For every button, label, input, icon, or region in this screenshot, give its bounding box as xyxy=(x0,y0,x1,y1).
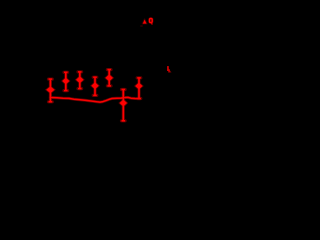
legend faint ghost dot xyxy=(140,25,142,27)
legend label Q xyxy=(150,19,153,25)
halo layer (jpeg-like dim red fringe) xyxy=(50,97,140,102)
bright layer xyxy=(50,97,140,102)
lone data glyph xyxy=(167,66,171,73)
legend triangle marker xyxy=(142,19,147,24)
